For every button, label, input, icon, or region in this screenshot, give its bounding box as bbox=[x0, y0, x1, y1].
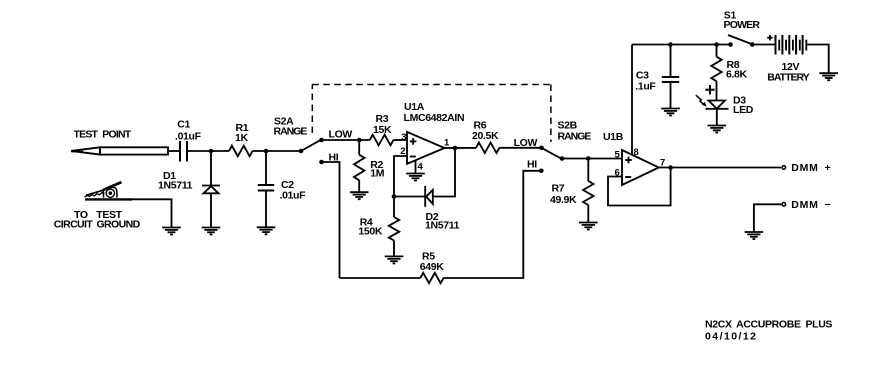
dashed gang box bbox=[312, 85, 551, 143]
svg-text:649K: 649K bbox=[420, 261, 444, 273]
svg-text:15K: 15K bbox=[373, 124, 392, 136]
switch S2A bbox=[299, 149, 304, 154]
svg-text:TEST POINT: TEST POINT bbox=[74, 128, 132, 140]
wire feedback node to D2 bbox=[394, 196, 425, 198]
svg-text:HI: HI bbox=[527, 159, 537, 171]
op-amp U1B bbox=[622, 150, 659, 185]
ground (U1A pin4) bbox=[406, 174, 425, 181]
node U1A output junction bbox=[453, 146, 458, 151]
node R2 top bbox=[357, 138, 362, 143]
svg-text:LED: LED bbox=[733, 104, 754, 116]
svg-text:6.8K: 6.8K bbox=[726, 69, 748, 81]
svg-text:+: + bbox=[825, 162, 831, 174]
op-amp U1B plus sign bbox=[625, 157, 632, 164]
wire D2 to output bbox=[433, 148, 455, 197]
LED D3 bbox=[706, 101, 729, 126]
diode D1 bbox=[202, 151, 220, 228]
wire S1 to battery bbox=[752, 44, 775, 46]
capacitor C1 bbox=[180, 141, 187, 162]
switch S2B bbox=[539, 146, 544, 151]
wire battery to ground bbox=[806, 45, 828, 74]
svg-text:R7: R7 bbox=[552, 183, 565, 195]
svg-text:4: 4 bbox=[418, 162, 424, 173]
wire U1B pin8 up bbox=[631, 45, 633, 155]
ground (R2) bbox=[350, 192, 369, 199]
wire R3 to pin3 bbox=[394, 139, 408, 141]
svg-text:BATTERY: BATTERY bbox=[767, 72, 809, 84]
capacitor C3 bbox=[662, 45, 679, 109]
ground (C2) bbox=[257, 227, 276, 234]
svg-text:1: 1 bbox=[444, 137, 450, 148]
wire bottom loop right bbox=[444, 171, 542, 278]
wire probe to C1 bbox=[168, 150, 180, 152]
svg-text:.01uF: .01uF bbox=[280, 190, 307, 202]
svg-text:DMM: DMM bbox=[791, 162, 818, 174]
resistor R7 bbox=[583, 159, 593, 223]
svg-text:LOW: LOW bbox=[329, 129, 353, 141]
battery B1 12V bbox=[776, 35, 807, 55]
terminal DMM- bbox=[782, 203, 786, 207]
svg-text:U1B: U1B bbox=[603, 131, 624, 143]
op-amp U1A bbox=[407, 132, 445, 164]
capacitor C2 bbox=[258, 151, 274, 227]
svg-text:LOW: LOW bbox=[514, 137, 538, 149]
wire C1 to R1 bbox=[187, 150, 229, 152]
wire S2B common to U1B pin5 bbox=[562, 158, 622, 160]
svg-text:−: − bbox=[825, 199, 831, 211]
resistor R2 bbox=[354, 140, 364, 192]
resistor R8 bbox=[711, 45, 721, 101]
op-amp U1A plus sign bbox=[410, 138, 417, 145]
wire S2A LOW to R3 bbox=[322, 139, 370, 141]
svg-text:.1uF: .1uF bbox=[635, 81, 656, 93]
svg-text:.01uF: .01uF bbox=[175, 131, 202, 143]
wire R6 to S2B LOW bbox=[499, 147, 541, 149]
node S2B HI contact bbox=[539, 169, 544, 174]
node R8 top bbox=[714, 42, 719, 47]
resistor R3 bbox=[370, 135, 394, 145]
svg-text:5: 5 bbox=[615, 150, 621, 161]
resistor R4 bbox=[389, 197, 399, 257]
ground (D1) bbox=[202, 228, 221, 235]
node R7 top bbox=[586, 156, 591, 161]
svg-text:CIRCUIT GROUND: CIRCUIT GROUND bbox=[54, 219, 141, 231]
diode D2 bbox=[425, 186, 433, 207]
terminal DMM+ bbox=[782, 166, 786, 170]
ground (R7) bbox=[579, 223, 598, 230]
node feedback junction bbox=[392, 194, 397, 199]
ground (C3) bbox=[661, 109, 680, 116]
op-amp U1A minus sign bbox=[410, 156, 416, 158]
ground (R4) bbox=[385, 256, 404, 263]
LED D3 plus sign bbox=[705, 85, 714, 94]
svg-text:8: 8 bbox=[634, 147, 639, 158]
LED D3 arrow bbox=[696, 95, 707, 106]
wire top power rail bbox=[632, 44, 731, 46]
wire bottom loop left bbox=[340, 277, 421, 279]
wire R1 to S2A bbox=[253, 150, 302, 152]
alligator clip bbox=[85, 182, 133, 199]
svg-text:3: 3 bbox=[401, 132, 406, 143]
svg-text:DMM: DMM bbox=[791, 199, 818, 211]
svg-text:49.9K: 49.9K bbox=[550, 194, 577, 206]
node U1B output junction bbox=[668, 165, 673, 170]
svg-text:RANGE: RANGE bbox=[558, 131, 592, 143]
wire U1A pin4 to ground bbox=[415, 160, 417, 173]
wire U1B pin6 feedback bbox=[608, 168, 671, 206]
battery plus sign bbox=[767, 35, 772, 40]
svg-text:150K: 150K bbox=[358, 225, 382, 237]
test point probe bbox=[71, 147, 168, 154]
svg-text:RANGE: RANGE bbox=[274, 126, 308, 138]
ground (D3) bbox=[708, 126, 727, 133]
wire DMM- to ground bbox=[754, 204, 781, 232]
svg-text:1M: 1M bbox=[370, 168, 384, 180]
wire U1A output bbox=[445, 147, 477, 149]
ground (clip) bbox=[162, 228, 181, 235]
svg-text:20.5K: 20.5K bbox=[472, 130, 499, 142]
wire U1B output to DMM+ bbox=[659, 167, 781, 169]
svg-text:POWER: POWER bbox=[724, 19, 761, 31]
svg-text:1N5711: 1N5711 bbox=[158, 180, 193, 192]
op-amp U1B minus sign bbox=[625, 176, 631, 178]
resistor R1 bbox=[229, 146, 253, 156]
ground (DMM-) bbox=[745, 232, 764, 239]
resistor R6 bbox=[476, 143, 499, 153]
node S2A HI contact bbox=[319, 160, 324, 165]
svg-text:LMC6482AIN: LMC6482AIN bbox=[404, 112, 465, 124]
switch S1 bbox=[728, 42, 733, 47]
svg-text:C1: C1 bbox=[177, 119, 190, 131]
wire S2A HI down bbox=[322, 162, 340, 278]
resistor R5 bbox=[420, 273, 443, 283]
node R1/C2 junction bbox=[264, 149, 269, 154]
svg-text:1K: 1K bbox=[235, 132, 248, 144]
svg-text:04/10/12: 04/10/12 bbox=[705, 331, 757, 343]
node C1/D1 junction bbox=[209, 149, 214, 154]
node C3 top bbox=[668, 42, 673, 47]
svg-text:1N5711: 1N5711 bbox=[425, 220, 460, 232]
wire clip to ground bbox=[132, 199, 172, 227]
node S2A LOW contact bbox=[319, 138, 324, 143]
wire pin2 feedback left bbox=[394, 156, 407, 197]
ground (battery) bbox=[819, 73, 838, 80]
svg-text:N2CX ACCUPROBE PLUS: N2CX ACCUPROBE PLUS bbox=[705, 319, 832, 331]
